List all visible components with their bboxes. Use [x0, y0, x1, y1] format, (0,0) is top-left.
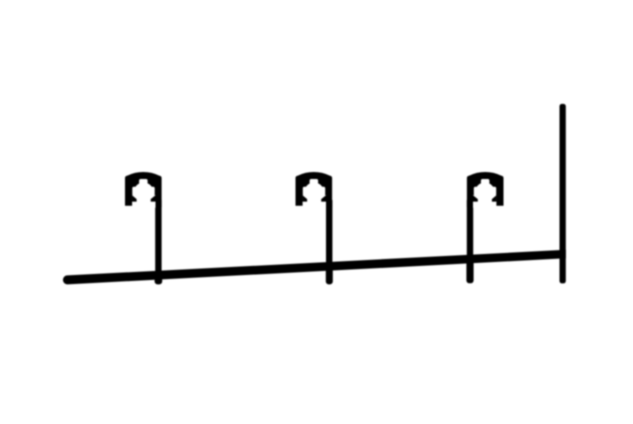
- stem 2: [326, 200, 332, 271]
- drip tail 3: [466, 256, 473, 283]
- stem 1: [155, 200, 161, 280]
- drip tail 2: [326, 263, 333, 284]
- stem 3: [467, 200, 473, 263]
- drip tail 1: [155, 271, 163, 284]
- hook clip 2: [296, 172, 333, 208]
- right upstand (tall vertical flange): [560, 104, 566, 284]
- base rail (slanted bottom bar): [63, 250, 566, 285]
- hook clip 1: [125, 172, 162, 208]
- hook clip 3 (mirrored, stem on left): [467, 172, 504, 208]
